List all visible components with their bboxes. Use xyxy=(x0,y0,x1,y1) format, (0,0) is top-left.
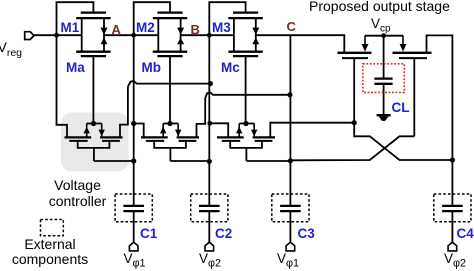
wire: node B xyxy=(181,34,234,36)
wire: cross-couple right gate to node C xyxy=(290,136,414,160)
controller 2 left channel bar xyxy=(141,136,168,138)
arrow up on M3 right leg xyxy=(252,38,259,45)
capacitor C1 top plate xyxy=(123,205,144,207)
arrow down on M2 right leg xyxy=(177,28,184,35)
output transistor left channel bar xyxy=(338,52,372,54)
capacitor C1 bottom plate xyxy=(123,210,144,212)
wire: controller 1 right leg hop over C1 to node B xyxy=(120,87,128,138)
label V_phi2 under C4 xyxy=(444,251,466,270)
arrow down on M3 right leg xyxy=(252,28,259,35)
controller pair 2 center node dot xyxy=(167,121,172,126)
wire: node A xyxy=(104,34,158,36)
label C2 xyxy=(215,226,232,241)
junction dot C2 / controller 2 output xyxy=(207,159,212,164)
transistor Mc channel bar xyxy=(228,51,262,53)
transistor Mb channel bar xyxy=(153,51,187,53)
capacitor C2 top plate xyxy=(199,205,220,207)
legend dashed box external components xyxy=(41,220,64,236)
label C1 xyxy=(140,226,157,241)
dashed box external capacitor C4 xyxy=(434,194,471,222)
controller 3 left gate bar xyxy=(222,140,240,142)
controller 2 right gate bar xyxy=(179,140,197,142)
wire: V_reg vertical down to controller 1 xyxy=(57,35,68,137)
label External components xyxy=(0,237,100,268)
transistor Mb gate bar xyxy=(157,55,182,57)
capacitor C3 bottom plate xyxy=(280,210,301,212)
output transistor left gate bar xyxy=(342,57,368,59)
transistor M1 gate bar xyxy=(81,11,106,13)
controller 1 right channel bar xyxy=(100,136,122,138)
wire: controller 2 gate cross-connect staircase xyxy=(154,141,186,148)
label Proposed output stage xyxy=(309,0,450,14)
controller 2 right channel bar xyxy=(177,136,199,138)
controller 2 left transistor up arrow leg xyxy=(162,124,164,137)
capacitor C3 top plate xyxy=(280,205,301,207)
controller 3 right channel bar xyxy=(253,136,275,138)
capacitor C4 top plate xyxy=(442,205,463,207)
wire: controller 3 output to capacitor node xyxy=(246,160,290,162)
wire: controller 2 inner source bar xyxy=(163,123,178,125)
controller 2 left gate bar xyxy=(146,140,164,142)
controller 1 left gate bar xyxy=(69,140,87,142)
terminal port V_phi2 xyxy=(205,242,214,251)
wire: right output transistor gate stub down xyxy=(413,58,415,136)
terminal port V_phi2 xyxy=(448,242,457,251)
label V_cp xyxy=(371,16,391,35)
wire: CL to ground xyxy=(383,85,385,115)
wire: gate hat of M3 from node x=209.3 xyxy=(209,2,245,35)
terminal port V_phi1 xyxy=(286,242,295,251)
transistor M2 channel bar xyxy=(153,17,187,19)
label V_phi1 under C1 xyxy=(124,251,146,270)
wire: controller 1 gate cross-connect staircase xyxy=(78,141,110,148)
wire: controller 3 inner source bar xyxy=(239,123,254,125)
wire: cross-couple left gate to right output node xyxy=(354,123,452,160)
node A junction dot xyxy=(131,33,136,38)
transistor Ma channel bar xyxy=(76,51,110,53)
controller 2 right transistor down arrow leg xyxy=(177,124,179,137)
wire: controller 1 output to capacitor node xyxy=(94,160,134,162)
controller 3 right gate bar xyxy=(255,140,273,142)
wire: gate hat of M1 from node x=56.5 xyxy=(57,2,94,35)
wire: Mc gate stub down xyxy=(245,56,247,123)
transistor Mc gate bar xyxy=(233,55,258,57)
junction dot hop wire on C2 xyxy=(208,81,213,86)
label Mb xyxy=(142,60,162,75)
wire: controller 1 inner source bar xyxy=(87,123,102,125)
wire: node A down to capacitor C1 xyxy=(133,35,135,205)
source arrow left output transistor xyxy=(364,36,366,46)
label M2 xyxy=(136,20,155,35)
label Voltage controller xyxy=(20,177,135,209)
controller 3 left channel bar xyxy=(217,136,244,138)
junction dot node A / controller legs xyxy=(131,121,136,126)
transistor M2 left leg xyxy=(157,18,159,52)
dashed box external capacitor C3 xyxy=(272,194,309,222)
capacitor CL bottom plate xyxy=(374,83,392,85)
wire: C2 to clock terminal xyxy=(208,211,210,242)
label node A xyxy=(112,22,121,37)
capacitor CL top plate xyxy=(374,77,392,79)
junction dot C1 / controller 1 output xyxy=(131,158,136,163)
wire: controller 3 gate cross-connect staircase xyxy=(230,141,262,148)
wire: controller 2 left leg to node A wire xyxy=(134,124,144,138)
transistor M3 left leg xyxy=(233,18,235,52)
wire: Ma gate stub down xyxy=(92,56,94,123)
label Mc xyxy=(221,60,240,75)
transistor M3 channel bar xyxy=(228,17,262,19)
label M3 xyxy=(212,20,231,35)
wire: controller 3 left leg to node B wire xyxy=(209,123,228,137)
junction dot left output gate xyxy=(352,120,357,125)
junction dot C3 / cross wire xyxy=(288,158,293,163)
transistor M3 gate bar xyxy=(233,11,258,13)
transistor M1 channel bar xyxy=(76,17,110,19)
wire: controller 3 right leg to output gate node xyxy=(270,123,354,138)
wire: node C to output stage xyxy=(256,35,344,53)
controller 3 left transistor up arrow leg xyxy=(238,124,240,137)
transistor M2 gate bar xyxy=(157,11,182,13)
controller pair 1 center node dot xyxy=(91,121,96,126)
wire: V_cp rail xyxy=(365,35,403,37)
label node C xyxy=(287,19,296,34)
wire: node C down to capacitor C3 xyxy=(289,35,291,205)
label C4 xyxy=(457,226,474,241)
output transistor right channel bar xyxy=(393,52,432,54)
wire: C4 to clock terminal xyxy=(451,211,453,242)
wire: V_reg to M1 left leg xyxy=(34,34,82,36)
capacitor C2 bottom plate xyxy=(199,210,220,212)
grey highlight behind voltage controller 1 xyxy=(61,112,129,171)
junction dot hop wire on C3 xyxy=(287,92,292,97)
node B junction dot xyxy=(207,33,212,38)
controller 1 left channel bar xyxy=(65,136,92,138)
label CL xyxy=(392,100,410,115)
wire: right output drain up and over to C4 xyxy=(427,35,453,205)
terminal port V_phi1 xyxy=(129,242,138,251)
label V_phi2 under C2 xyxy=(199,251,221,270)
transistor M1 left leg xyxy=(81,18,83,52)
wire: left output transistor gate stub down xyxy=(353,58,355,123)
transistor M2 right leg xyxy=(180,18,182,52)
label M1 xyxy=(61,20,80,35)
capacitor C4 bottom plate xyxy=(442,210,463,212)
wire: C3 to clock terminal xyxy=(289,211,291,242)
junction dot controller 3 left leg on C2 wire xyxy=(207,121,212,126)
label V_phi1 under C3 xyxy=(277,251,299,270)
wire: controller 2 output to capacitor node xyxy=(170,160,209,162)
label node B xyxy=(191,22,200,37)
source arrow right output transistor xyxy=(402,36,404,46)
wire: node B down to capacitor C2 xyxy=(208,35,210,205)
arrow down on M1 right leg xyxy=(101,28,108,35)
label C3 xyxy=(298,226,315,241)
controller pair 3 center node dot xyxy=(243,121,248,126)
output transistor right gate bar xyxy=(399,57,427,59)
controller 3 right transistor down arrow leg xyxy=(253,124,255,137)
controller 1 right transistor down arrow leg xyxy=(101,124,103,137)
wire: gate hat of M2 from node x=133.7 xyxy=(134,2,170,35)
controller 1 left transistor up arrow leg xyxy=(86,124,88,137)
wire: C1 to clock terminal xyxy=(133,211,135,242)
red dashed box around CL xyxy=(363,64,405,93)
arrow up on M1 right leg xyxy=(101,38,108,45)
node V_reg junction dot xyxy=(54,33,59,38)
wire: CL branch from V_cp xyxy=(383,36,385,78)
wire: Mb gate stub down xyxy=(169,56,171,123)
dashed box external capacitor C2 xyxy=(191,194,228,222)
wire: controller 2 right leg hop over C2 to node C xyxy=(197,98,206,137)
node V_cp dot xyxy=(381,33,386,38)
input port terminal V_reg xyxy=(25,32,34,40)
transistor M3 right leg xyxy=(255,18,257,52)
dashed box external capacitor C1 xyxy=(115,194,152,222)
transistor M1 right leg xyxy=(103,18,105,52)
transistor Ma gate bar xyxy=(81,55,106,57)
junction dot C4 / cross wire xyxy=(450,157,455,162)
label V_reg xyxy=(0,39,22,59)
controller 1 right gate bar xyxy=(102,140,120,142)
ground symbol xyxy=(377,114,391,116)
label Ma xyxy=(66,60,85,75)
arrow up on M2 right leg xyxy=(177,38,184,45)
